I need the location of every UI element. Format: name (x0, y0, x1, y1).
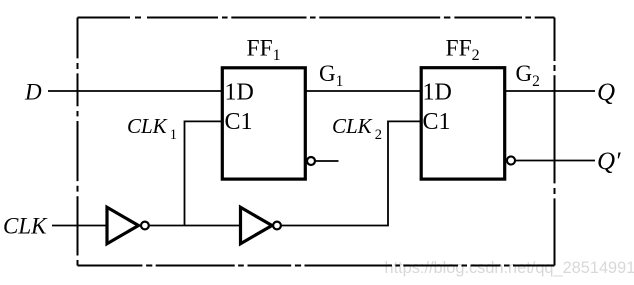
inverter 1 (107, 207, 139, 243)
wire inverter2 output / CLK2 to FF2 C1 (281, 121, 423, 225)
wire FF1 inverted-output stub (316, 160, 339, 162)
svg-text:Q: Q (597, 79, 615, 106)
wire Q' output (516, 160, 595, 162)
inverter 2 bubble (273, 222, 281, 230)
wire CLK input (52, 225, 107, 227)
wire Q output (505, 90, 595, 92)
wire inverter1 to inverter2 (148, 225, 241, 227)
svg-text:C1: C1 (225, 109, 253, 135)
svg-text:1D: 1D (423, 80, 452, 106)
dashed enclosure border (78, 18, 555, 266)
svg-text:D: D (24, 80, 42, 105)
flip-flop FF2 (421, 68, 505, 179)
svg-text:https://blog.csdn.net/qq_28514: https://blog.csdn.net/qq_28514991 (385, 259, 634, 277)
FF2 output bubble (507, 156, 515, 164)
wire G1 (FF1 output to FF2 input) (305, 90, 422, 92)
inverter 1 bubble (141, 222, 149, 230)
flip-flop FF1 (222, 68, 305, 179)
svg-text:CLK: CLK (3, 214, 48, 239)
wire CLK1 to FF1 C1 (185, 121, 224, 225)
inverter 2 (241, 207, 273, 243)
svg-text:C1: C1 (423, 109, 451, 135)
FF1 output bubble (307, 157, 315, 165)
wire D input (48, 90, 224, 92)
svg-text:Q′: Q′ (597, 148, 621, 175)
svg-text:1D: 1D (225, 80, 254, 106)
